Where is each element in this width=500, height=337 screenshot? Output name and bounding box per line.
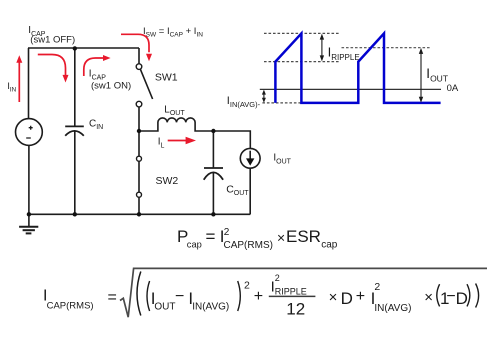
svg-text:−: − [175,288,184,305]
svg-text:12: 12 [286,300,305,319]
svg-text:OUT: OUT [154,302,175,313]
svg-text:SW2: SW2 [156,175,179,187]
svg-text:ICAP: ICAP [89,69,107,82]
svg-text:×: × [424,289,433,306]
svg-text:IN(AVG): IN(AVG) [374,303,411,314]
svg-text:0A: 0A [447,83,459,94]
svg-text:2: 2 [244,280,250,292]
svg-text:COUT: COUT [226,183,249,197]
svg-text:IIN(AVG)-: IIN(AVG)- [227,95,261,109]
svg-text:cap: cap [187,240,202,250]
svg-text:RIPPLE: RIPPLE [275,286,307,296]
svg-text:D: D [341,289,353,308]
svg-text:=: = [206,227,216,246]
svg-text:(sw1 ON): (sw1 ON) [91,81,131,92]
svg-text:2: 2 [275,273,280,283]
svg-text:LOUT: LOUT [164,105,185,118]
svg-text:−: − [446,288,455,305]
svg-text:cap: cap [321,240,338,251]
svg-text:2: 2 [224,227,230,238]
svg-text:CAP(RMS): CAP(RMS) [47,301,94,312]
svg-text:D: D [456,289,468,308]
svg-text:=: = [108,289,117,306]
svg-text:IOUT: IOUT [426,66,448,83]
svg-text:(sw1 OFF): (sw1 OFF) [30,35,75,46]
svg-text:CAP(RMS): CAP(RMS) [224,240,273,251]
svg-text:ESR: ESR [286,227,321,246]
svg-text:ISW = ICAP + IIN: ISW = ICAP + IIN [143,26,203,39]
svg-text:2: 2 [374,281,380,293]
svg-text:IOUT: IOUT [273,153,291,166]
svg-text:IN(AVG): IN(AVG) [192,302,229,313]
svg-text:×: × [277,230,285,246]
svg-text:+: + [356,288,365,305]
svg-text:×: × [329,289,338,306]
svg-text:IL: IL [158,137,165,150]
svg-text:SW1: SW1 [155,72,178,84]
svg-text:IIN: IIN [7,81,16,93]
svg-text:+: + [254,288,263,305]
svg-text:CIN: CIN [89,118,103,131]
